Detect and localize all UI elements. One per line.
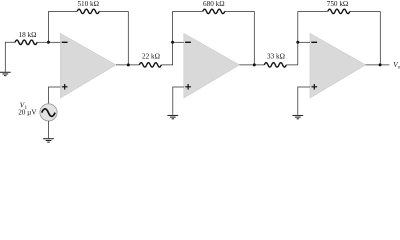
wire: 33k to stage 3 inverting junction	[286, 42, 298, 65]
wire: feedback left vertical stage 3	[297, 11, 299, 42]
wire: feedback right vertical stage 1	[127, 11, 129, 65]
wire: 22k to stage 2 inverting junction	[161, 42, 172, 65]
ground G4 (stage3)	[292, 115, 303, 118]
wire: feedback top left segment stage 1	[48, 10, 77, 12]
wire: source to ground	[48, 121, 50, 138]
wire: feedback top left segment stage 2	[173, 10, 203, 12]
op-amp A2	[184, 33, 240, 98]
resistor 510 kΩ (feedback stage 1)	[77, 9, 99, 13]
svg-text:750 kΩ: 750 kΩ	[327, 0, 349, 8]
node: output junction stage 2	[253, 63, 256, 66]
wire: feedback top right segment stage 2	[225, 10, 255, 12]
resistor 22 kΩ	[139, 63, 161, 67]
wire: output stage 1	[116, 64, 139, 66]
op-amp A3 inverting input label -	[311, 41, 317, 43]
wire: output stage 2	[239, 64, 264, 66]
svg-text:18 kΩ: 18 kΩ	[19, 31, 37, 39]
resistor 33 kΩ	[264, 63, 286, 67]
wire: feedback left vertical stage 2	[172, 11, 174, 42]
svg-text:33 kΩ: 33 kΩ	[267, 53, 285, 61]
wire: feedback top right segment stage 1	[99, 10, 128, 12]
node: output junction stage 3	[379, 63, 382, 66]
wire: feedback right vertical stage 3	[379, 11, 381, 65]
op-amp A1 inverting input label -	[62, 41, 68, 43]
source V1 20uV (AC source circle)	[40, 104, 57, 121]
ground G3 (stage2)	[167, 115, 178, 118]
op-amp A1	[60, 33, 116, 98]
wire: inverting input stage 2	[173, 41, 184, 43]
op-amp A1 non-inverting input label +	[62, 84, 68, 90]
op-amp A2 non-inverting input label +	[185, 84, 191, 90]
wire: non-inverting input stage 3 to ground	[298, 87, 310, 115]
wire: feedback top left segment stage 3	[298, 10, 328, 12]
node: inverting input junction stage 3	[296, 41, 299, 44]
svg-text:22 kΩ: 22 kΩ	[142, 53, 160, 61]
wire: feedback top right segment stage 3	[350, 10, 381, 12]
wire: inverting input stage 1	[48, 41, 60, 43]
wire: 18k left segment + vertical to ground	[5, 42, 15, 71]
node: inverting input junction stage 1	[47, 41, 50, 44]
resistor 750 kΩ (feedback stage 3)	[328, 9, 350, 13]
ground G1 (18k)	[0, 72, 11, 75]
wire: non-inverting input stage 1	[49, 87, 61, 104]
source V1 sine symbol	[42, 109, 55, 117]
node: inverting input junction stage 2	[171, 41, 174, 44]
wire: inverting input stage 3	[298, 41, 310, 43]
wire: feedback left vertical stage 1	[47, 11, 49, 42]
node: output junction stage 1	[127, 63, 130, 66]
wire: non-inverting input stage 2 to ground	[173, 87, 184, 115]
wire: output stage 3 to Vo	[366, 64, 390, 66]
svg-text:20 µV: 20 µV	[18, 108, 37, 116]
op-amp A3	[310, 33, 366, 98]
op-amp A2 inverting input label -	[185, 41, 191, 43]
resistor 18 kΩ	[15, 40, 37, 44]
op-amp A3 non-inverting input label +	[312, 84, 318, 90]
svg-text:680 kΩ: 680 kΩ	[203, 0, 225, 8]
wire: 18k to inverting junction	[37, 41, 48, 43]
ground G2 (source)	[43, 139, 54, 142]
svg-text:510 kΩ: 510 kΩ	[77, 0, 99, 8]
wire: feedback right vertical stage 2	[253, 11, 255, 65]
resistor 680 kΩ (feedback stage 2)	[203, 9, 225, 13]
